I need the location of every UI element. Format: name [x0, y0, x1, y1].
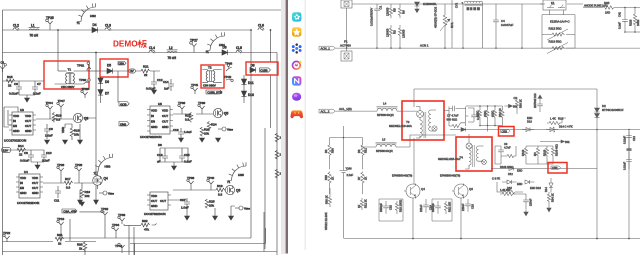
mosfet Q4 — [93, 176, 108, 186]
test point TP33 — [118, 213, 126, 224]
diode D10 — [241, 91, 254, 97]
svg-text:GND: GND — [13, 129, 19, 133]
resistor R34 — [547, 192, 554, 204]
wire J1 drop — [346, 8, 348, 51]
svg-text:0.001uF/300V: 0.001uF/300V — [370, 8, 374, 26]
svg-text:SMD8EL61B-30A: SMD8EL61B-30A — [389, 124, 412, 128]
svg-text:GND: GND — [151, 125, 157, 129]
IC U3 gate driver — [9, 108, 36, 135]
diode D2 sic — [595, 104, 624, 118]
svg-text:221uF: 221uF — [419, 204, 423, 212]
svg-text:R7: R7 — [357, 176, 361, 180]
divider network left R30 — [324, 172, 335, 194]
resistor R25 — [205, 199, 215, 208]
svg-text:R123: R123 — [629, 19, 633, 26]
svg-text:R12 1K: R12 1K — [364, 199, 368, 208]
window scrollbar strip — [281, 0, 286, 254]
svg-text:OUT: OUT — [162, 119, 168, 123]
resistor R65 — [583, 1, 640, 15]
svg-text:D13: D13 — [527, 120, 532, 124]
svg-text:R106: R106 — [521, 149, 525, 156]
svg-text:22: 22 — [144, 73, 148, 77]
test point TP43 — [225, 61, 233, 71]
wire C41 R123 bottom rail — [625, 31, 640, 33]
svg-text:CL3: CL3 — [105, 24, 111, 28]
capacitor C4 — [493, 4, 513, 48]
svg-text:CSA_47N: CSA_47N — [63, 210, 76, 214]
wire vertical x58 to T1 — [57, 30, 59, 71]
svg-text:HS5: HS5 — [238, 173, 244, 177]
esd cap D13 — [527, 93, 543, 124]
choke CL5 — [236, 46, 242, 53]
svg-text:Y246: Y246 — [346, 166, 353, 170]
wire bus B y=52.5 — [3, 52, 278, 54]
svg-text:3300pF: 3300pF — [379, 203, 383, 212]
ground Q6b — [229, 216, 234, 220]
diode D4 — [92, 23, 98, 32]
diode D12 — [508, 167, 522, 177]
svg-text:OUT: OUT — [151, 199, 157, 203]
svg-text:D12: D12 — [508, 172, 513, 176]
svg-text:L5: L5 — [382, 138, 386, 142]
svg-text:120K9: 120K9 — [386, 7, 390, 16]
svg-text:3.3: 3.3 — [66, 185, 71, 189]
svg-text:1.0uF: 1.0uF — [181, 206, 189, 210]
varistor RV1 — [434, 4, 455, 48]
svg-text:U5: U5 — [158, 102, 162, 106]
svg-text:D14: D14 — [544, 187, 548, 192]
svg-text:C15B_RTN: C15B_RTN — [207, 91, 222, 95]
wire T3 bottom drop — [413, 138, 415, 189]
svg-text:0.0047uF: 0.0047uF — [501, 23, 513, 27]
svg-text:0.1uF: 0.1uF — [618, 22, 622, 29]
svg-text:1K0: 1K0 — [605, 11, 611, 15]
diode D7 — [98, 90, 109, 96]
svg-text:EPN6580443(T9): EPN6580443(T9) — [440, 174, 460, 178]
svg-text:IN: IN — [13, 119, 16, 123]
resistor R5 upper — [386, 4, 397, 18]
test point TP32 — [101, 207, 109, 218]
svg-text:TP13: TP13 — [57, 217, 65, 221]
wire vertical x522 — [521, 4, 523, 48]
test point TP26 — [57, 163, 65, 174]
ground R25 — [213, 216, 218, 220]
wire vertical x265 rail — [264, 128, 266, 249]
svg-text:C18: C18 — [471, 204, 475, 209]
junction dots bus A — [57, 29, 271, 53]
svg-text:D10: D10 — [248, 93, 254, 97]
svg-text:TP04: TP04 — [46, 101, 54, 105]
resistor quartet RQ1 — [521, 146, 528, 164]
svg-text:CY2: CY2 — [455, 2, 459, 8]
svg-text:TP27: TP27 — [190, 39, 198, 43]
svg-text:600 61Ω: 600 61Ω — [447, 118, 458, 122]
svg-text:TP33: TP33 — [118, 213, 126, 217]
capacitor C18 — [461, 199, 475, 212]
snubber C9 R108 — [495, 142, 516, 169]
svg-text:R13: R13 — [558, 117, 564, 121]
transistor Q6 — [452, 184, 473, 199]
svg-text:UCC27322DON: UCC27322DON — [140, 135, 162, 139]
resistor R24 — [207, 121, 217, 131]
transistor Q4 — [404, 184, 425, 199]
resistor R5 lower — [386, 25, 397, 48]
net label CSA_47N — [62, 209, 77, 214]
red annotation box T1 — [44, 61, 89, 89]
svg-text:TP31: TP31 — [77, 64, 85, 68]
resistor R12b — [357, 198, 368, 210]
svg-text:R21: R21 — [143, 65, 149, 69]
svg-text:C10: C10 — [46, 151, 52, 155]
resistor RB vert — [483, 108, 489, 123]
net label C5A — [118, 62, 126, 66]
svg-text:CL5: CL5 — [236, 46, 242, 50]
svg-text:D6: D6 — [223, 46, 227, 50]
wire ACN bus — [335, 47, 640, 49]
svg-text:GND: GND — [32, 191, 38, 195]
svg-text:Q6: Q6 — [469, 187, 473, 191]
svg-text:L 4K: L 4K — [550, 117, 556, 121]
inductor L2 — [167, 46, 178, 60]
resistor quartet RQ2 — [533, 146, 540, 164]
svg-text:C2: C2 — [514, 96, 518, 100]
app icon teal — [292, 12, 301, 21]
svg-text:R23 10KΩ: R23 10KΩ — [399, 200, 403, 212]
svg-text:R32: R32 — [142, 219, 148, 223]
capacitor C12 — [146, 74, 163, 91]
capacitor CR2 — [623, 154, 632, 170]
svg-text:0.01uF: 0.01uF — [9, 92, 19, 96]
svg-text:D14 C 4 FK: D14 C 4 FK — [559, 125, 573, 129]
svg-text:TP32: TP32 — [101, 207, 109, 211]
DEMO board red text — [113, 40, 147, 49]
svg-text:SMD8EL61B-30A: SMD8EL61B-30A — [438, 157, 460, 161]
diode D17 vert — [544, 178, 553, 193]
resistor R30b left bottom — [325, 188, 332, 207]
svg-text:R36 1K: R36 1K — [519, 99, 523, 108]
ground Q5 — [216, 138, 221, 142]
svg-text:HS2: HS2 — [90, 14, 96, 18]
svg-text:1K: 1K — [364, 177, 368, 180]
svg-text:C8: C8 — [24, 151, 28, 155]
connector box J2 — [341, 51, 352, 61]
svg-text:D8: D8 — [158, 143, 162, 147]
svg-text:OUT: OUT — [162, 114, 168, 118]
svg-text:R24: R24 — [211, 122, 217, 126]
heatsink HS2 — [77, 3, 97, 25]
svg-text:C9: C9 — [49, 127, 53, 131]
svg-text:GOB: GOB — [120, 102, 126, 106]
svg-text:C11: C11 — [54, 198, 60, 202]
app icon purple blob — [292, 93, 301, 101]
svg-text:EN: EN — [151, 119, 155, 123]
wire TP22 row — [3, 241, 97, 243]
diode D11 — [241, 79, 253, 85]
svg-text:NC: NC — [533, 152, 537, 156]
vref circle Vme Q4 — [99, 191, 114, 195]
svg-text:R3: R3 — [393, 30, 397, 34]
svg-text:Vme: Vme — [108, 191, 114, 195]
svg-text:TP39: TP39 — [198, 101, 206, 105]
app icon N gradient — [292, 76, 301, 85]
wire bus A y=30 — [3, 29, 252, 31]
svg-text:ESD: ESD — [527, 116, 532, 120]
wire res quartet rails — [466, 106, 503, 132]
arrow below R34 — [547, 204, 551, 212]
IC U4 gate driver — [16, 170, 43, 198]
svg-text:EN: EN — [13, 124, 17, 128]
wire TP32 row — [79, 212, 141, 226]
capacitor C17 — [180, 198, 190, 210]
svg-text:C15B: C15B — [260, 69, 267, 73]
ground C16 — [179, 138, 184, 142]
svg-text:TP07: TP07 — [58, 99, 66, 103]
heatsink HS4 — [206, 32, 226, 54]
svg-text:120K9: 120K9 — [386, 28, 390, 37]
net label 12V row2 — [2, 148, 11, 153]
red annotation box C5B bottom — [548, 163, 567, 174]
svg-text:L1: L1 — [31, 23, 35, 27]
svg-text:IN: IN — [20, 181, 23, 185]
svg-text:NPB8040QR: NPB8040QR — [376, 149, 393, 153]
wire 12V row2 — [3, 149, 45, 151]
svg-text:10K0: 10K0 — [636, 19, 640, 26]
wire quartet rails — [526, 142, 556, 165]
diode D9 — [250, 63, 256, 72]
red annotation box T2 — [201, 65, 224, 88]
resistor R13 — [216, 184, 225, 197]
resistor R22b — [185, 112, 193, 122]
svg-text:10k: 10k — [209, 203, 214, 207]
svg-text:VDD: VDD — [61, 127, 65, 133]
sheet border left page — [3, 10, 284, 255]
resistor R21 — [141, 65, 150, 78]
snubber C7 R loop — [444, 106, 469, 128]
wire D5 to R21 row — [100, 70, 141, 72]
choke CL3 — [105, 24, 111, 31]
svg-text:D6: D6 — [105, 80, 109, 84]
svg-text:ESD D16: ESD D16 — [530, 186, 541, 190]
app icon blue dots — [292, 43, 302, 53]
svg-text:VDD: VDD — [13, 114, 19, 118]
svg-text:OUT: OUT — [160, 199, 166, 203]
svg-text:C41: C41 — [618, 12, 622, 17]
svg-text:C15: C15 — [184, 153, 190, 157]
resistor RD vert — [498, 108, 504, 123]
capacitor C7 — [32, 81, 41, 96]
svg-text:3300pF: 3300pF — [431, 203, 435, 212]
resistor quartet RQ4 — [551, 144, 558, 164]
choke CL2 — [13, 24, 19, 31]
red annotation box C5B top — [499, 127, 515, 137]
wire verticals bottom — [61, 218, 134, 255]
svg-text:10k: 10k — [204, 131, 209, 135]
capacitor C14 — [163, 79, 174, 91]
svg-text:C5A: C5A — [119, 62, 125, 66]
ground U3 cluster b — [63, 140, 68, 144]
svg-text:0.01uF: 0.01uF — [623, 162, 627, 170]
svg-text:4.7uF: 4.7uF — [504, 146, 511, 150]
svg-text:K12RA-1A-P-C: K12RA-1A-P-C — [550, 20, 570, 24]
vref circle Vme — [218, 127, 233, 131]
wire nested border y249 — [130, 228, 266, 255]
wire Q5 row — [173, 112, 228, 114]
test point TP left edge — [0, 60, 6, 72]
svg-text:D4: D4 — [93, 23, 97, 27]
ground arrow x96 — [94, 200, 99, 204]
svg-text:R30 1K: R30 1K — [325, 195, 329, 204]
resistor R18 — [52, 112, 62, 122]
svg-text:3.3: 3.3 — [56, 117, 61, 121]
svg-text:AC7680: AC7680 — [340, 44, 351, 48]
junction dots quartet — [479, 105, 496, 126]
arrow net 80k — [556, 140, 570, 144]
wire R18 stub — [65, 124, 80, 140]
choke CL4 — [149, 46, 155, 53]
resistor rb on rail x277 — [275, 150, 281, 159]
mosfet Q6 — [225, 185, 240, 194]
svg-text:TP41: TP41 — [191, 83, 199, 87]
red annotation box T4 — [456, 137, 492, 171]
svg-text:1.0uF: 1.0uF — [184, 130, 192, 134]
svg-text:C5B: C5B — [552, 166, 558, 170]
svg-text:TP29: TP29 — [82, 87, 90, 91]
svg-text:R112 50Ω: R112 50Ω — [549, 27, 563, 31]
wire bottom bus — [3, 212, 278, 252]
wire vertical x277 rail — [276, 53, 278, 255]
wire Q4 row — [43, 172, 98, 189]
test point TP40 — [207, 176, 215, 187]
wire mid y131 — [450, 129, 640, 131]
svg-text:C6: C6 — [14, 82, 18, 86]
capacitor C8 vert — [468, 108, 480, 122]
connector box J1 — [341, 0, 352, 8]
test point TP28 — [75, 163, 83, 174]
svg-text:TP22: TP22 — [3, 231, 11, 235]
wire bottoms Q4 Q6 — [413, 198, 461, 239]
capacitor C13 — [157, 152, 168, 164]
wire T1 to D5 — [87, 70, 100, 72]
svg-text:Q4: Q4 — [104, 177, 108, 181]
svg-text:R113 50Ω: R113 50Ω — [549, 40, 563, 44]
svg-text:R34 1K: R34 1K — [551, 193, 555, 202]
svg-text:Q3: Q3 — [84, 117, 88, 121]
svg-text:TP30: TP30 — [79, 78, 87, 82]
svg-text:U4: U4 — [24, 170, 28, 174]
svg-text:D11: D11 — [248, 81, 254, 85]
svg-text:47k: 47k — [144, 227, 149, 231]
net label 12V — [129, 69, 135, 73]
svg-text:VDD: VDD — [25, 114, 31, 118]
svg-text:WR22 22-20K: WR22 22-20K — [324, 212, 328, 230]
ground C8 C10 — [31, 162, 44, 169]
svg-text:UCC27322DON: UCC27322DON — [4, 138, 26, 142]
svg-text:TP42: TP42 — [224, 75, 232, 79]
svg-text:R31: R31 — [57, 233, 63, 237]
net label GOB — [119, 102, 129, 107]
capacitor C23 — [379, 201, 393, 214]
svg-text:STPSC10065CF: STPSC10065CF — [602, 108, 624, 112]
wire vertical diodes D6 D7 — [100, 77, 102, 103]
resistor R14 — [17, 144, 26, 157]
svg-text:22: 22 — [8, 83, 12, 87]
svg-text:Vme: Vme — [244, 206, 250, 210]
svg-text:ESD: ESD — [517, 182, 522, 186]
svg-text:T1: T1 — [68, 68, 72, 72]
svg-text:1K: 1K — [357, 205, 361, 208]
svg-text:1k: 1k — [79, 246, 83, 250]
svg-text:UCC27322DON: UCC27322DON — [144, 212, 166, 216]
svg-text:D5: D5 — [107, 63, 111, 67]
wire vertical x96 rail — [80, 53, 96, 201]
svg-text:OUT: OUT — [32, 186, 38, 190]
svg-text:ACL_2: ACL_2 — [321, 110, 330, 114]
svg-text:GND: GND — [20, 191, 26, 195]
inductor L1 — [29, 23, 40, 37]
svg-text:71: 71 — [77, 21, 81, 25]
resistor R33b — [500, 188, 515, 196]
IC U5 gate driver right — [140, 102, 173, 139]
thermistor R112 — [542, 15, 575, 49]
rc cluster A box — [379, 199, 403, 221]
svg-text:C7: C7 — [37, 82, 41, 86]
resistor RA vert — [476, 108, 482, 123]
svg-text:220uF: 220uF — [529, 198, 533, 206]
test point TP25 — [46, 16, 54, 30]
svg-text:Q5: Q5 — [224, 112, 228, 116]
svg-text:1uF: 1uF — [164, 87, 169, 91]
svg-text:410Ω: 410Ω — [476, 111, 480, 117]
svg-text:12V: 12V — [3, 148, 8, 152]
resistor R22r — [444, 201, 451, 214]
svg-text:71: 71 — [206, 50, 210, 54]
test point TP44 — [115, 243, 125, 251]
wire vertical x118 to GOB — [117, 71, 119, 103]
svg-text:U3: U3 — [20, 108, 24, 112]
svg-text:1.4K 633: 1.4K 633 — [500, 188, 511, 192]
svg-text:C14: C14 — [163, 80, 169, 84]
net label C15B_RTN — [206, 90, 222, 95]
capacitor 2.2uF mid — [340, 126, 354, 239]
svg-text:R14: R14 — [18, 144, 24, 148]
thermistor R113 — [542, 40, 575, 54]
capacitor C15 — [179, 152, 192, 164]
svg-text:Q4: Q4 — [421, 187, 425, 191]
svg-text:C1: C1 — [1, 60, 5, 64]
svg-text:TP25: TP25 — [46, 16, 54, 20]
svg-text:ACN_1: ACN_1 — [321, 47, 331, 51]
svg-text:CL4: CL4 — [149, 46, 155, 50]
app icon game controller — [290, 110, 303, 118]
diode D5 — [107, 63, 113, 73]
test point TP31 — [77, 62, 91, 71]
mosfet Q5 — [213, 108, 228, 117]
svg-text:K1: K1 — [551, 1, 555, 5]
svg-text:480K(R) 07-0D2: 480K(R) 07-0D2 — [434, 7, 438, 28]
svg-text:GND: GND — [162, 125, 168, 129]
transformer T2 — [202, 66, 221, 88]
resistor R6 lower — [398, 25, 405, 48]
svg-text:0.01uF: 0.01uF — [623, 136, 627, 144]
divider network right R12 — [357, 138, 368, 170]
wire R15 row — [3, 80, 45, 82]
ground U3 cluster c — [78, 140, 83, 144]
svg-text:410Ω: 410Ω — [483, 111, 487, 117]
choke CL6 — [258, 24, 264, 31]
wire U3 left loop — [4, 107, 18, 127]
svg-text:R30: R30 — [331, 148, 335, 153]
wire top rail — [352, 3, 583, 5]
